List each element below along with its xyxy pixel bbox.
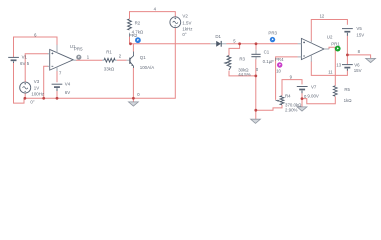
svg-text:C1: C1 bbox=[264, 49, 270, 54]
junction node 5 at R3 branch bbox=[238, 42, 241, 45]
junction V7 bottom bbox=[301, 97, 304, 100]
AC source V2 bbox=[170, 17, 181, 28]
wire ground rail with V2 bottom riser bbox=[24, 28, 175, 99]
wire V4 bottom to ground rail bbox=[56, 91, 58, 99]
wire V3 bottom bbox=[24, 93, 26, 98]
potentiometer R3 bbox=[224, 56, 231, 70]
wire Q1 emitter to ground rail bbox=[132, 68, 134, 99]
wire stub to ground under V7 bbox=[301, 99, 303, 107]
probe PR1 bbox=[335, 46, 341, 52]
svg-text:R1: R1 bbox=[106, 50, 112, 55]
battery V7 bbox=[297, 87, 308, 94]
ground at supply midpoint (node 8) bbox=[366, 58, 376, 62]
wire R4 top to V7 top (node 9) bbox=[282, 80, 302, 96]
resistor R1 bbox=[102, 58, 129, 62]
wire collector node to D1 anode bbox=[130, 43, 211, 45]
wire R2 top to V2 top (node 4) bbox=[130, 12, 176, 19]
junction R3 bottom C1 column bbox=[254, 75, 257, 78]
svg-text:0°: 0° bbox=[182, 32, 186, 37]
wire U1 output to R1 (node 1) bbox=[76, 59, 102, 61]
junction feedback on rail bbox=[42, 97, 45, 100]
wire R5 bottom to V7 bottom junction bbox=[302, 97, 335, 104]
wire V6 bottom to U2 negative supply (node 11) bbox=[311, 62, 347, 76]
svg-text:PR3: PR3 bbox=[268, 31, 277, 36]
svg-text:9.00V: 9.00V bbox=[307, 93, 319, 98]
svg-text:R5: R5 bbox=[344, 87, 350, 92]
wire U2 positive supply to V5 (node 12) bbox=[311, 20, 347, 41]
svg-text:1V: 1V bbox=[34, 85, 39, 90]
wire V5 bottom to midpoint junction bbox=[346, 36, 348, 55]
battery V5 bbox=[342, 29, 353, 36]
probe PR3 bbox=[270, 37, 275, 42]
svg-text:V2: V2 bbox=[182, 14, 188, 19]
svg-text:Q1: Q1 bbox=[140, 55, 146, 60]
svg-text:V7: V7 bbox=[311, 84, 317, 89]
svg-text:1kHz: 1kHz bbox=[182, 26, 192, 31]
wire C1 bottom column to ground junction bbox=[255, 59, 257, 110]
op-amp U2 bbox=[301, 38, 324, 59]
svg-text:V5: V5 bbox=[356, 26, 362, 31]
wire ground junction to R4 bottom bbox=[256, 105, 282, 110]
wire U2 - input to R4 wiper (node 10) bbox=[276, 57, 298, 100]
junction collector node bbox=[129, 42, 132, 45]
battery V4 bbox=[52, 84, 63, 91]
wire branch down to C1 bbox=[255, 44, 257, 50]
svg-text:U2: U2 bbox=[327, 35, 333, 40]
wire branch down to R3 bbox=[229, 44, 240, 56]
junction V3 bottom bbox=[24, 97, 27, 100]
svg-text:V3: V3 bbox=[34, 79, 40, 84]
potentiometer R4 bbox=[276, 96, 284, 105]
transistor Q1 bbox=[130, 52, 134, 69]
op-amp U1 pins bbox=[48, 45, 77, 71]
junction emitter on rail bbox=[132, 97, 135, 100]
svg-text:2.90%: 2.90% bbox=[285, 108, 298, 113]
junction ground node under C1 bbox=[254, 109, 257, 112]
svg-text:V4: V4 bbox=[65, 82, 71, 87]
diode D1 bbox=[210, 41, 226, 47]
svg-text:D1: D1 bbox=[215, 34, 221, 39]
svg-text:PR2: PR2 bbox=[129, 33, 138, 38]
wire U2 output to R5 top bbox=[329, 47, 335, 86]
resistor R2 bbox=[128, 19, 132, 37]
svg-text:R2: R2 bbox=[135, 21, 141, 26]
junction V4 bottom bbox=[56, 97, 59, 100]
svg-text:R4: R4 bbox=[285, 94, 291, 99]
svg-text:11: 11 bbox=[328, 69, 333, 74]
svg-text:12: 12 bbox=[320, 13, 325, 18]
svg-text:0°: 0° bbox=[30, 100, 34, 105]
svg-text:PR5: PR5 bbox=[74, 47, 83, 52]
svg-text:6V: 6V bbox=[20, 61, 25, 66]
wire V3 top to U1 + input bbox=[25, 54, 48, 83]
wire V6 top bbox=[346, 55, 348, 64]
wire V1 bottom return bbox=[14, 62, 25, 104]
ground under V7 bbox=[297, 107, 307, 111]
svg-text:6V: 6V bbox=[65, 90, 70, 95]
wire stub to ground under C1 junction bbox=[255, 110, 257, 119]
svg-text:15V: 15V bbox=[354, 68, 362, 73]
op-amp U2 pins bbox=[298, 40, 330, 61]
wire U1 - input feedback down to ground rail bbox=[44, 66, 48, 98]
svg-text:33kΩ: 33kΩ bbox=[104, 67, 115, 72]
svg-text:PR4: PR4 bbox=[275, 57, 284, 62]
resistor R5 bbox=[333, 86, 337, 96]
ground under C1 junction bbox=[251, 119, 261, 123]
wire V7 bottom bbox=[301, 93, 303, 99]
wire V1 top to U1 positive supply (node 6) bbox=[14, 37, 58, 57]
probe PR5 bbox=[76, 55, 81, 60]
wire R2 bottom to collector node bbox=[129, 36, 131, 44]
probe PR4 bbox=[277, 62, 282, 67]
svg-text:V6: V6 bbox=[354, 62, 360, 67]
ground at Q1 emitter bbox=[129, 98, 139, 106]
svg-text:1.5V: 1.5V bbox=[182, 20, 191, 25]
wire R1 to Q1 base (node 2) bbox=[117, 59, 127, 61]
svg-text:10: 10 bbox=[276, 69, 281, 74]
junction supply midpoint bbox=[346, 54, 349, 57]
svg-text:1kΩ: 1kΩ bbox=[344, 98, 353, 103]
capacitor C1 bbox=[251, 50, 260, 60]
svg-text:15V: 15V bbox=[356, 33, 364, 38]
probe PR2 bbox=[135, 37, 141, 43]
svg-text:44.5%: 44.5% bbox=[238, 72, 251, 77]
svg-text:0.1µF: 0.1µF bbox=[263, 59, 275, 64]
wire midpoint junction to ground (node 8) bbox=[347, 55, 370, 59]
wire U1 negative supply to V4 (node 7) bbox=[56, 71, 58, 82]
op-amp U1 bbox=[50, 50, 73, 71]
junction at C1 branch bbox=[255, 42, 258, 45]
wire R3 bottom to C1 bottom bbox=[229, 71, 256, 76]
svg-text:R3: R3 bbox=[239, 56, 245, 61]
wire D1 cathode to U2 + input (node 5) bbox=[226, 43, 298, 45]
svg-text:100A/A: 100A/A bbox=[140, 65, 154, 70]
svg-text:V1: V1 bbox=[22, 55, 28, 60]
AC source V3 bbox=[20, 82, 31, 93]
wire Q1 collector riser bbox=[132, 44, 134, 52]
svg-text:100Hz: 100Hz bbox=[31, 92, 44, 97]
battery V6 bbox=[342, 65, 353, 71]
svg-text:13: 13 bbox=[336, 63, 341, 68]
svg-text:PR1: PR1 bbox=[331, 41, 340, 46]
battery V1 bbox=[8, 57, 19, 63]
